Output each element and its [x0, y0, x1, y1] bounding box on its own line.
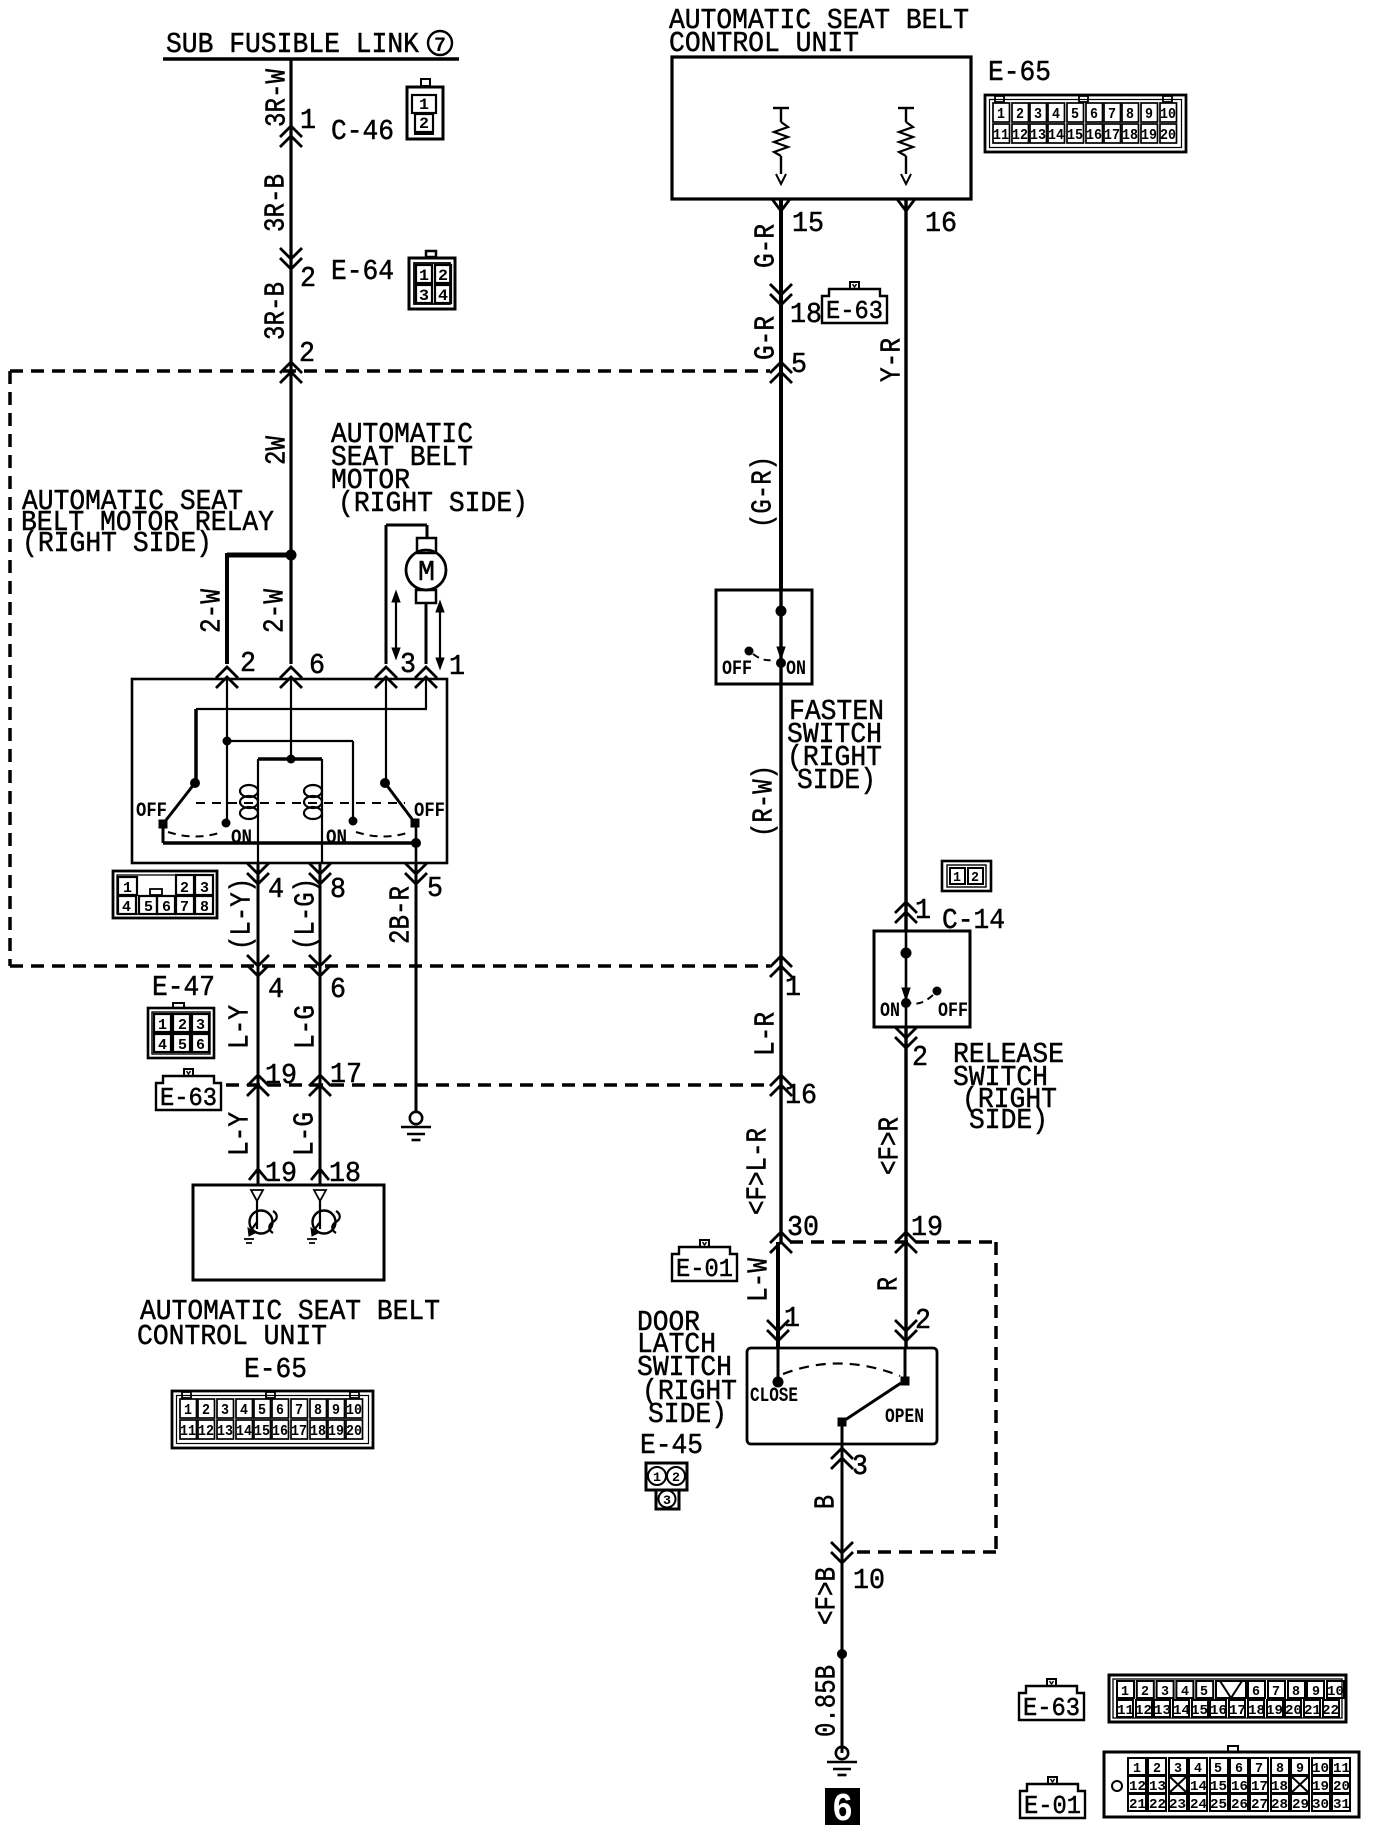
svg-text:(R-W): (R-W) — [748, 765, 781, 837]
svg-text:5: 5 — [791, 348, 807, 381]
svg-text:3: 3 — [852, 1450, 868, 1483]
svg-text:30: 30 — [787, 1211, 819, 1244]
svg-text:5: 5 — [144, 899, 153, 916]
svg-text:ON: ON — [231, 827, 252, 850]
svg-text:4: 4 — [1052, 106, 1060, 123]
svg-text:9: 9 — [332, 1402, 340, 1419]
svg-text:B: B — [810, 1495, 843, 1509]
svg-text:E-45: E-45 — [640, 1429, 703, 1462]
svg-text:SUB FUSIBLE LINK: SUB FUSIBLE LINK — [166, 28, 420, 61]
svg-text:13: 13 — [1030, 127, 1046, 144]
svg-text:2: 2 — [419, 115, 429, 133]
svg-text:15: 15 — [1067, 127, 1083, 144]
svg-text:2: 2 — [915, 1304, 931, 1337]
svg-text:16: 16 — [1231, 1779, 1248, 1795]
svg-text:CONTROL UNIT: CONTROL UNIT — [137, 1320, 327, 1353]
svg-text:G-R: G-R — [750, 316, 783, 360]
svg-text:<F>L-R: <F>L-R — [742, 1128, 775, 1215]
svg-text:7: 7 — [180, 899, 189, 916]
svg-text:15: 15 — [1191, 1703, 1208, 1719]
svg-text:10: 10 — [346, 1402, 362, 1419]
svg-text:10: 10 — [1312, 1761, 1329, 1777]
svg-text:20: 20 — [1160, 127, 1176, 144]
svg-text:CONTROL UNIT: CONTROL UNIT — [669, 27, 859, 60]
svg-text:4: 4 — [438, 287, 448, 305]
svg-text:12: 12 — [1135, 1703, 1152, 1719]
svg-text:2: 2 — [438, 267, 448, 285]
svg-text:2: 2 — [240, 647, 256, 680]
svg-text:M: M — [418, 556, 435, 589]
svg-text:21: 21 — [1304, 1703, 1321, 1719]
svg-text:5: 5 — [258, 1402, 266, 1419]
svg-text:(L-Y): (L-Y) — [226, 878, 259, 950]
svg-text:OFF: OFF — [938, 1000, 968, 1023]
svg-text:SIDE): SIDE) — [797, 764, 876, 797]
svg-text:1: 1 — [785, 971, 801, 1004]
svg-text:9: 9 — [1296, 1761, 1304, 1777]
svg-text:3: 3 — [400, 648, 416, 681]
svg-text:8: 8 — [1292, 1684, 1300, 1700]
svg-text:E-01: E-01 — [1024, 1791, 1081, 1821]
svg-text:6: 6 — [330, 973, 346, 1006]
svg-text:2: 2 — [1153, 1761, 1161, 1777]
svg-text:3: 3 — [221, 1402, 229, 1419]
svg-text:2: 2 — [971, 870, 979, 886]
svg-text:1: 1 — [1121, 1684, 1129, 1700]
svg-text:14: 14 — [1190, 1779, 1207, 1795]
svg-text:2: 2 — [180, 880, 189, 897]
svg-text:(RIGHT SIDE): (RIGHT SIDE) — [338, 487, 528, 520]
svg-text:2: 2 — [1141, 1684, 1149, 1700]
svg-text:24: 24 — [1190, 1797, 1207, 1813]
svg-text:5: 5 — [1200, 1684, 1208, 1700]
svg-text:6: 6 — [1235, 1761, 1243, 1777]
svg-text:8: 8 — [1276, 1761, 1284, 1777]
svg-text:19: 19 — [265, 1059, 297, 1092]
svg-text:18: 18 — [1271, 1779, 1288, 1795]
svg-text:C-46: C-46 — [331, 115, 394, 148]
svg-text:8: 8 — [200, 899, 209, 916]
svg-text:6: 6 — [1252, 1684, 1260, 1700]
svg-text:1: 1 — [449, 650, 465, 683]
svg-text:E-63: E-63 — [826, 296, 883, 326]
svg-text:E-01: E-01 — [676, 1254, 733, 1284]
svg-text:E-63: E-63 — [1023, 1693, 1080, 1723]
svg-text:E-65: E-65 — [988, 56, 1051, 89]
svg-text:L-W: L-W — [743, 1258, 776, 1302]
svg-text:OPEN: OPEN — [885, 1406, 924, 1429]
svg-text:3: 3 — [663, 1493, 671, 1508]
svg-text:12: 12 — [1012, 127, 1028, 144]
svg-text:30: 30 — [1312, 1797, 1329, 1813]
svg-text:18: 18 — [790, 298, 822, 331]
svg-text:ON: ON — [880, 1000, 900, 1023]
svg-text:13: 13 — [1149, 1779, 1166, 1795]
svg-text:2B-R: 2B-R — [385, 886, 418, 944]
svg-text:1: 1 — [419, 96, 429, 114]
svg-text:1: 1 — [300, 104, 316, 137]
svg-text:26: 26 — [1231, 1797, 1248, 1813]
svg-text:3: 3 — [1034, 106, 1042, 123]
svg-text:(RIGHT SIDE): (RIGHT SIDE) — [22, 527, 212, 560]
svg-text:2: 2 — [672, 1470, 680, 1485]
svg-text:18: 18 — [1248, 1703, 1265, 1719]
svg-text:11: 11 — [180, 1423, 196, 1440]
svg-text:1: 1 — [915, 894, 931, 927]
svg-text:2W: 2W — [261, 436, 294, 465]
svg-text:17: 17 — [1229, 1703, 1246, 1719]
svg-text:16: 16 — [785, 1079, 817, 1112]
svg-text:L-Y: L-Y — [224, 1005, 257, 1049]
svg-text:2: 2 — [202, 1402, 210, 1419]
svg-text:E-47: E-47 — [152, 971, 215, 1004]
svg-text:4: 4 — [122, 899, 131, 916]
svg-text:11: 11 — [993, 127, 1009, 144]
svg-text:10: 10 — [1160, 106, 1176, 123]
svg-text:4: 4 — [158, 1037, 167, 1054]
svg-text:7: 7 — [1272, 1684, 1280, 1700]
svg-text:1: 1 — [184, 1402, 192, 1419]
svg-text:5: 5 — [178, 1037, 187, 1054]
svg-text:14: 14 — [236, 1423, 252, 1440]
svg-text:20: 20 — [1333, 1779, 1350, 1795]
svg-text:L-Y: L-Y — [224, 1112, 257, 1156]
svg-text:19: 19 — [1266, 1703, 1283, 1719]
svg-text:6: 6 — [276, 1402, 284, 1419]
svg-text:5: 5 — [427, 872, 443, 905]
svg-text:<F>R: <F>R — [874, 1117, 907, 1175]
svg-text:<F>B: <F>B — [811, 1567, 844, 1625]
svg-text:8: 8 — [330, 873, 346, 906]
svg-text:5: 5 — [1214, 1761, 1222, 1777]
svg-text:ON: ON — [326, 827, 347, 850]
svg-text:1: 1 — [123, 880, 132, 897]
svg-text:2: 2 — [300, 262, 316, 295]
svg-text:13: 13 — [1154, 1703, 1171, 1719]
svg-text:3: 3 — [1161, 1684, 1169, 1700]
svg-text:6: 6 — [196, 1037, 205, 1054]
svg-text:4: 4 — [240, 1402, 248, 1419]
svg-text:16: 16 — [1210, 1703, 1227, 1719]
svg-text:19: 19 — [1312, 1779, 1329, 1795]
svg-text:29: 29 — [1292, 1797, 1309, 1813]
svg-text:Y-R: Y-R — [876, 338, 909, 382]
svg-text:9: 9 — [1145, 106, 1153, 123]
svg-text:19: 19 — [1141, 127, 1157, 144]
svg-text:(L-G): (L-G) — [290, 878, 323, 950]
svg-text:22: 22 — [1322, 1703, 1339, 1719]
svg-text:1: 1 — [653, 1470, 661, 1485]
svg-text:23: 23 — [1169, 1797, 1186, 1813]
svg-text:3: 3 — [196, 1017, 205, 1034]
svg-text:14: 14 — [1173, 1703, 1190, 1719]
svg-text:SIDE): SIDE) — [648, 1398, 727, 1431]
svg-text:25: 25 — [1210, 1797, 1227, 1813]
svg-text:CLOSE: CLOSE — [750, 1385, 798, 1408]
svg-text:13: 13 — [217, 1423, 233, 1440]
svg-text:10: 10 — [1327, 1684, 1344, 1700]
svg-text:L-R: L-R — [750, 1012, 783, 1056]
svg-text:2: 2 — [299, 337, 315, 370]
svg-text:17: 17 — [1104, 127, 1120, 144]
svg-text:3R-W: 3R-W — [261, 69, 294, 127]
svg-text:19: 19 — [328, 1423, 344, 1440]
svg-text:ON: ON — [786, 658, 806, 681]
svg-text:12: 12 — [1129, 1779, 1146, 1795]
svg-text:1: 1 — [158, 1017, 167, 1034]
svg-text:31: 31 — [1333, 1797, 1350, 1813]
svg-text:19: 19 — [911, 1211, 943, 1244]
svg-text:3R-B: 3R-B — [260, 282, 293, 340]
svg-text:1: 1 — [997, 106, 1005, 123]
svg-text:12: 12 — [198, 1423, 214, 1440]
svg-text:E-65: E-65 — [244, 1353, 307, 1386]
svg-text:8: 8 — [314, 1402, 322, 1419]
svg-text:11: 11 — [1117, 1703, 1134, 1719]
svg-text:7: 7 — [1255, 1761, 1263, 1777]
svg-text:5: 5 — [1071, 106, 1079, 123]
svg-text:10: 10 — [853, 1564, 885, 1597]
svg-text:OFF: OFF — [414, 800, 445, 823]
svg-text:3: 3 — [1174, 1761, 1182, 1777]
svg-text:20: 20 — [1285, 1703, 1302, 1719]
svg-text:3R-B: 3R-B — [260, 174, 293, 232]
svg-text:16: 16 — [272, 1423, 288, 1440]
svg-text:2: 2 — [912, 1041, 928, 1074]
svg-text:1: 1 — [784, 1302, 800, 1335]
svg-text:2-W: 2-W — [259, 589, 292, 633]
svg-text:6: 6 — [832, 1788, 853, 1833]
svg-text:2: 2 — [178, 1017, 187, 1034]
svg-text:7: 7 — [434, 35, 446, 58]
svg-text:1: 1 — [419, 267, 429, 285]
svg-text:3: 3 — [200, 880, 209, 897]
svg-text:22: 22 — [1149, 1797, 1166, 1813]
svg-text:28: 28 — [1271, 1797, 1288, 1813]
svg-text:9: 9 — [1312, 1684, 1320, 1700]
svg-text:6: 6 — [309, 649, 325, 682]
svg-text:16: 16 — [1086, 127, 1102, 144]
svg-text:4: 4 — [1181, 1684, 1189, 1700]
svg-text:E-64: E-64 — [331, 255, 394, 288]
svg-text:14: 14 — [1048, 127, 1064, 144]
svg-text:27: 27 — [1251, 1797, 1268, 1813]
svg-text:2-W: 2-W — [196, 589, 229, 633]
svg-text:4: 4 — [1194, 1761, 1202, 1777]
svg-text:2: 2 — [1016, 106, 1024, 123]
svg-text:15: 15 — [254, 1423, 270, 1440]
svg-text:SIDE): SIDE) — [969, 1104, 1048, 1137]
svg-text:11: 11 — [1333, 1761, 1350, 1777]
svg-text:7: 7 — [1108, 106, 1116, 123]
svg-text:OFF: OFF — [722, 658, 752, 681]
svg-text:4: 4 — [268, 973, 284, 1006]
svg-text:21: 21 — [1129, 1797, 1146, 1813]
svg-text:17: 17 — [291, 1423, 307, 1440]
svg-text:L-G: L-G — [290, 1005, 323, 1049]
svg-text:18: 18 — [1122, 127, 1138, 144]
svg-text:8: 8 — [1126, 106, 1134, 123]
svg-text:20: 20 — [346, 1423, 362, 1440]
svg-text:17: 17 — [330, 1058, 362, 1091]
svg-text:E-63: E-63 — [160, 1083, 217, 1113]
svg-text:G-R: G-R — [750, 224, 783, 268]
svg-text:6: 6 — [1090, 106, 1098, 123]
svg-text:0.85B: 0.85B — [811, 1665, 844, 1737]
svg-text:1: 1 — [1133, 1761, 1141, 1777]
svg-text:(G-R): (G-R) — [747, 456, 780, 528]
svg-text:6: 6 — [162, 899, 171, 916]
svg-text:17: 17 — [1251, 1779, 1268, 1795]
svg-text:16: 16 — [925, 207, 957, 240]
svg-text:OFF: OFF — [136, 800, 167, 823]
svg-text:L-G: L-G — [289, 1112, 322, 1156]
svg-text:15: 15 — [1210, 1779, 1227, 1795]
svg-text:15: 15 — [792, 207, 824, 240]
svg-text:R: R — [873, 1277, 906, 1291]
svg-text:4: 4 — [268, 873, 284, 906]
svg-text:1: 1 — [953, 870, 961, 886]
svg-text:18: 18 — [310, 1423, 326, 1440]
svg-text:3: 3 — [419, 287, 429, 305]
svg-text:7: 7 — [295, 1402, 303, 1419]
